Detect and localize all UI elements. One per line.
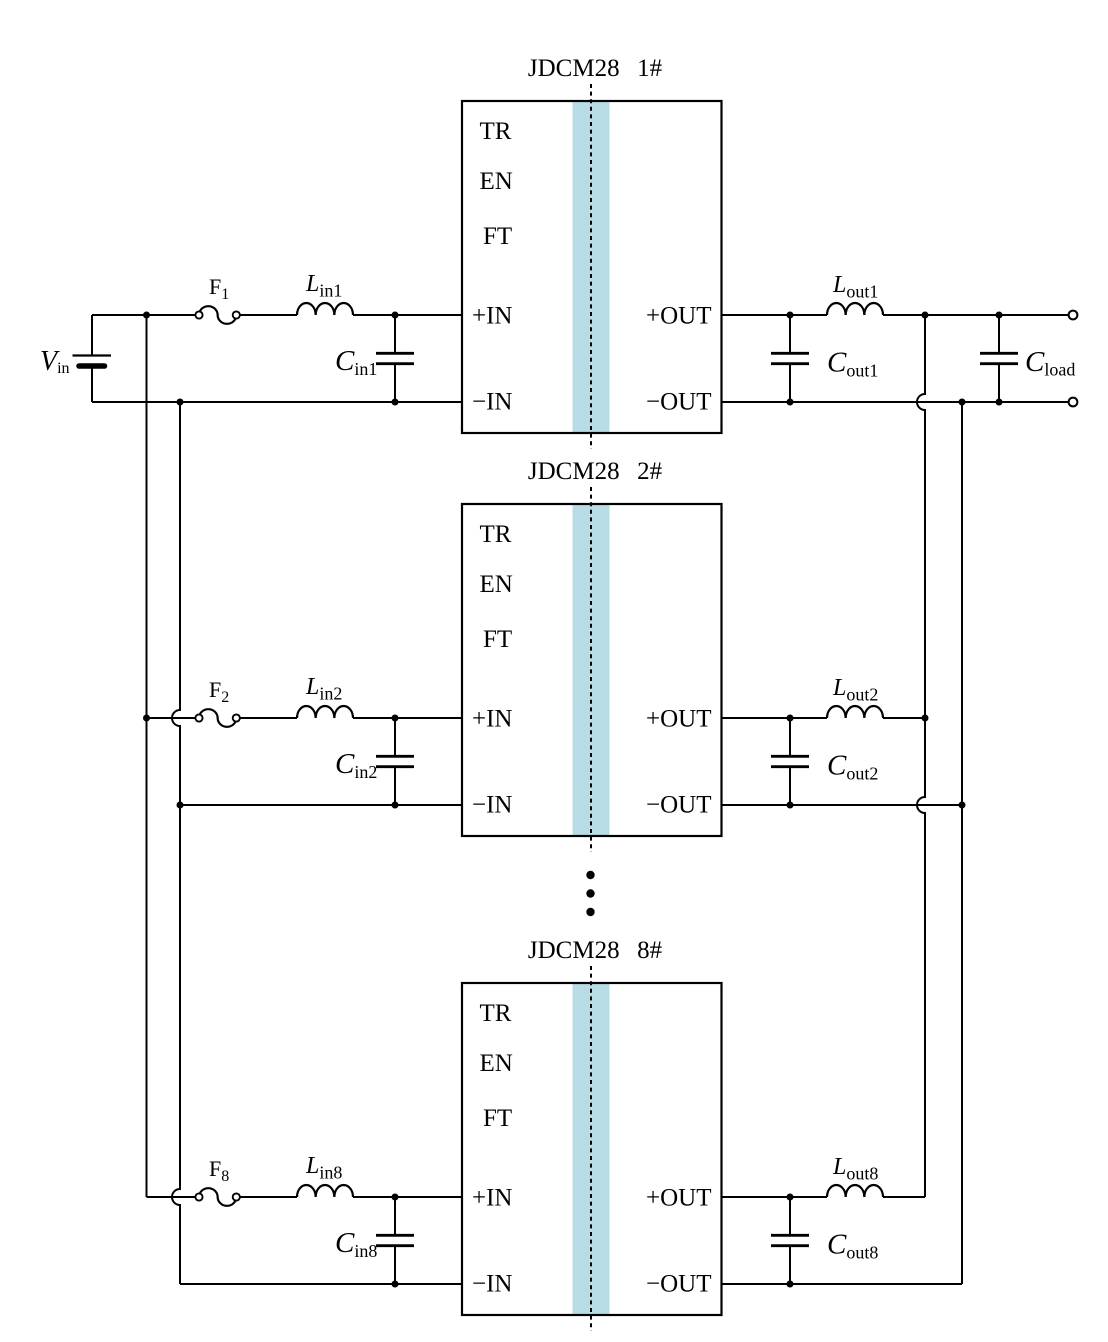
svg-text:TR: TR: [480, 521, 512, 548]
svg-text:EN: EN: [480, 571, 513, 598]
svg-text:−IN: −IN: [472, 388, 512, 415]
svg-text:+OUT: +OUT: [646, 1185, 711, 1212]
svg-text:JDCM28 2#: JDCM28 2#: [528, 458, 663, 485]
svg-text:TR: TR: [480, 118, 512, 145]
svg-text:FT: FT: [483, 626, 512, 653]
svg-text:−IN: −IN: [472, 791, 512, 818]
svg-text:+OUT: +OUT: [646, 706, 711, 733]
svg-text:−OUT: −OUT: [646, 1270, 711, 1297]
svg-text:−OUT: −OUT: [646, 791, 711, 818]
svg-text:JDCM28 8#: JDCM28 8#: [528, 937, 663, 964]
svg-text:TR: TR: [480, 1000, 512, 1027]
svg-text:−IN: −IN: [472, 1270, 512, 1297]
svg-text:−OUT: −OUT: [646, 388, 711, 415]
svg-text:+IN: +IN: [472, 303, 512, 330]
svg-text:+OUT: +OUT: [646, 303, 711, 330]
svg-text:EN: EN: [480, 168, 513, 195]
svg-text:+IN: +IN: [472, 1185, 512, 1212]
svg-text:+IN: +IN: [472, 706, 512, 733]
svg-text:FT: FT: [483, 223, 512, 250]
svg-text:JDCM28 1#: JDCM28 1#: [528, 55, 663, 82]
svg-text:EN: EN: [480, 1050, 513, 1077]
svg-text:FT: FT: [483, 1105, 512, 1132]
